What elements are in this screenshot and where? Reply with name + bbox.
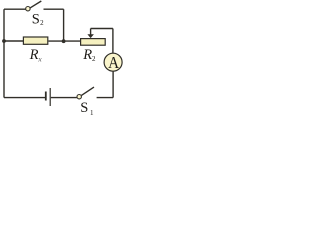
wire: link down to ammeter top [112, 29, 114, 54]
svg-text:S: S [80, 100, 88, 116]
resistor Rx [23, 37, 47, 44]
svg-text:1: 1 [90, 109, 94, 116]
resistor R2 (rheostat) [81, 39, 106, 46]
wire: ammeter bottom to bottom-right corner [112, 71, 114, 97]
svg-text:2: 2 [40, 19, 44, 27]
node: left junction dot [2, 39, 6, 43]
wire: top from left corner to switch S2 [4, 8, 26, 10]
wire: bottom from left corner to battery [4, 97, 45, 99]
wire: top from switch S2 to right corner [44, 8, 64, 10]
switch S1 pivot circle [77, 95, 81, 99]
svg-text:x: x [37, 54, 42, 63]
svg-text:R: R [29, 47, 39, 63]
battery long thin plate [49, 88, 51, 106]
rheostat slider arrow shaft [90, 29, 92, 36]
battery short thick plate [45, 92, 47, 101]
wire: battery to switch S1 [51, 97, 77, 99]
svg-text:A: A [108, 53, 119, 72]
svg-text:S: S [32, 12, 40, 28]
wire: left vertical side [3, 9, 5, 97]
switch S2 pivot circle [26, 7, 30, 11]
wire: middle from left node to Rx [4, 40, 23, 42]
wire: middle from Rx to R2 [49, 40, 81, 42]
wire: drop from top wire to middle node [63, 9, 65, 41]
svg-text:R: R [82, 47, 92, 63]
rheostat slider arrowhead [87, 34, 94, 38]
svg-text:2: 2 [92, 55, 96, 63]
switch S1 lever blade [81, 87, 94, 95]
wire: switch S1 to bottom-right corner [97, 97, 114, 99]
node: middle junction dot [62, 39, 66, 43]
wire: slider link horizontal [91, 28, 113, 30]
ammeter A1 body [104, 53, 122, 71]
switch S2 lever blade [30, 1, 41, 8]
